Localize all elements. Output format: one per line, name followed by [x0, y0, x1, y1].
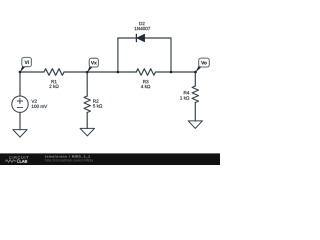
diode D2 triangle [137, 34, 145, 42]
label D2 part number 1N4007 [135, 27, 151, 30]
label R1 value 2 kOhm [49, 85, 58, 88]
footer CircuitLab logo chip bracket [18, 160, 20, 163]
voltage source V2 plus sign [17, 98, 22, 103]
label R1 designator [51, 80, 56, 83]
wire D2 loop left vertical [117, 38, 119, 72]
ground symbol under R2 [80, 128, 94, 136]
label V2 value 100 mV [32, 105, 47, 108]
resistor R4 zigzag [192, 86, 198, 103]
wire Vo corner down to R4 top [194, 72, 196, 86]
wire Vi corner down to V2 top [19, 72, 21, 96]
label R2 designator [93, 99, 98, 102]
label D2 designator [139, 22, 144, 25]
footer metadata url [45, 159, 93, 162]
junction dot D2 left [117, 71, 120, 74]
footer CircuitLab logo word LAB [20, 160, 28, 163]
footer bar [0, 153, 220, 165]
footer metadata author / title [45, 155, 90, 158]
wire D2 loop top left segment [118, 37, 136, 39]
wire V2 bottom to ground [19, 112, 21, 129]
label R4 value 1 kOhm [180, 96, 189, 99]
wire D2 loop top right segment [145, 37, 172, 39]
wire R2 bottom to ground [86, 113, 88, 129]
wire Vx junction down to R2 top [86, 72, 88, 96]
footer CircuitLab logo zigzag [5, 160, 17, 163]
junction dot D2 right [170, 71, 173, 74]
label R2 value 5 kOhm [93, 104, 102, 107]
voltage source V2 circle [12, 96, 28, 112]
wire R4 bottom to ground [194, 103, 196, 121]
resistor R2 zigzag [84, 96, 90, 113]
node Vo anchor dot [194, 71, 197, 74]
wire D2 loop right vertical [170, 38, 172, 72]
voltage source V2 minus sign [17, 106, 22, 108]
label R3 designator [143, 80, 148, 83]
wire main horizontal Vi to R1 [20, 71, 44, 73]
label R4 designator [184, 91, 189, 94]
ground symbol under V2 [13, 130, 27, 138]
node Vi flag [20, 57, 31, 72]
node Vi anchor dot [19, 71, 22, 74]
node Vx flag [87, 58, 98, 72]
footer CircuitLab logo word CIRCUIT [9, 156, 28, 159]
resistor R1 zigzag [44, 69, 64, 76]
resistor R3 zigzag [136, 69, 155, 76]
diode D2 cathode bar [135, 34, 137, 41]
junction dot at Vx [86, 71, 89, 74]
wire R1 to Vx to D2-left junction to R3 [64, 71, 136, 73]
label R3 value 4 kOhm [141, 85, 150, 88]
node Vo flag [196, 58, 210, 72]
label V2 designator [31, 100, 36, 103]
wire R3 to D2-right junction to Vo corner [156, 71, 196, 73]
ground symbol under R4 [188, 121, 202, 128]
